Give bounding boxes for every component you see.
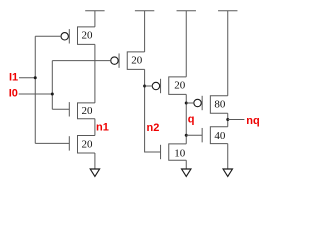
svg-text:n1: n1 bbox=[96, 121, 109, 133]
pmos P1 (W=20) bbox=[61, 27, 95, 44]
svg-text:n2: n2 bbox=[147, 122, 160, 134]
nmos N1 (W=20) bbox=[69, 102, 95, 119]
wire P4 gate bbox=[186, 102, 194, 104]
svg-text:20: 20 bbox=[82, 105, 94, 117]
wire P3 gate bbox=[145, 85, 153, 87]
wire I0 stub bbox=[19, 93, 53, 95]
node label n2 bbox=[147, 122, 160, 134]
junction node nq bbox=[226, 118, 229, 121]
node label I0 bbox=[9, 88, 18, 100]
nmos N3 (W=10) bbox=[161, 144, 187, 160]
node label nq bbox=[246, 115, 259, 127]
junction n2 to P3 gate bbox=[143, 85, 146, 88]
wire P4 drain to N4 drain bbox=[227, 113, 229, 126]
svg-text:40: 40 bbox=[214, 130, 226, 142]
wire P1 gate bbox=[35, 35, 61, 37]
wire node n1 (N1 source - N2 drain) bbox=[94, 119, 96, 136]
wire N1 gate bbox=[52, 108, 69, 110]
junction node I0 bbox=[51, 93, 54, 96]
node label I1 bbox=[9, 71, 18, 83]
power VDD T3 bbox=[177, 11, 196, 77]
pmos P4 (W=80) bbox=[194, 96, 228, 114]
svg-text:80: 80 bbox=[214, 99, 226, 111]
nmos N4 (W=40) bbox=[202, 127, 228, 144]
wire I1 stub bbox=[19, 77, 35, 79]
wire N4 gate bbox=[186, 134, 202, 136]
svg-text:10: 10 bbox=[174, 147, 186, 159]
node label q bbox=[188, 114, 195, 126]
svg-text:20: 20 bbox=[131, 55, 143, 67]
junction node I1 bbox=[34, 76, 37, 79]
ground bbox=[182, 160, 191, 176]
svg-text:q: q bbox=[188, 114, 195, 126]
wire node n2 rail bbox=[145, 69, 161, 152]
wire net I0 vertical rail bbox=[51, 61, 53, 110]
nmos N2 (W=20) bbox=[69, 136, 95, 154]
svg-text:I1: I1 bbox=[9, 71, 18, 83]
wire nq stub bbox=[228, 119, 245, 121]
junction q to N4 gate bbox=[185, 134, 188, 137]
power VDD T1 bbox=[85, 11, 104, 27]
wire N2 gate bbox=[35, 142, 69, 144]
junction q to P4 gate bbox=[185, 102, 188, 105]
power VDD T2 bbox=[135, 11, 154, 52]
wire P1 drain to N1 drain bbox=[94, 44, 96, 103]
wire net I1 vertical rail bbox=[34, 36, 36, 143]
wire node q rail bbox=[185, 94, 187, 144]
svg-text:nq: nq bbox=[246, 115, 259, 127]
node label n1 bbox=[96, 121, 109, 133]
pmos P3 (W=20) bbox=[152, 77, 186, 95]
svg-text:20: 20 bbox=[82, 138, 94, 150]
svg-text:20: 20 bbox=[82, 30, 94, 42]
svg-text:20: 20 bbox=[174, 80, 186, 92]
ground bbox=[90, 153, 99, 176]
ground bbox=[223, 144, 232, 177]
power VDD T4 bbox=[218, 11, 237, 96]
pmos P2 (W=20) bbox=[111, 52, 145, 70]
svg-text:I0: I0 bbox=[9, 88, 18, 100]
wire P2 gate bbox=[52, 60, 110, 62]
